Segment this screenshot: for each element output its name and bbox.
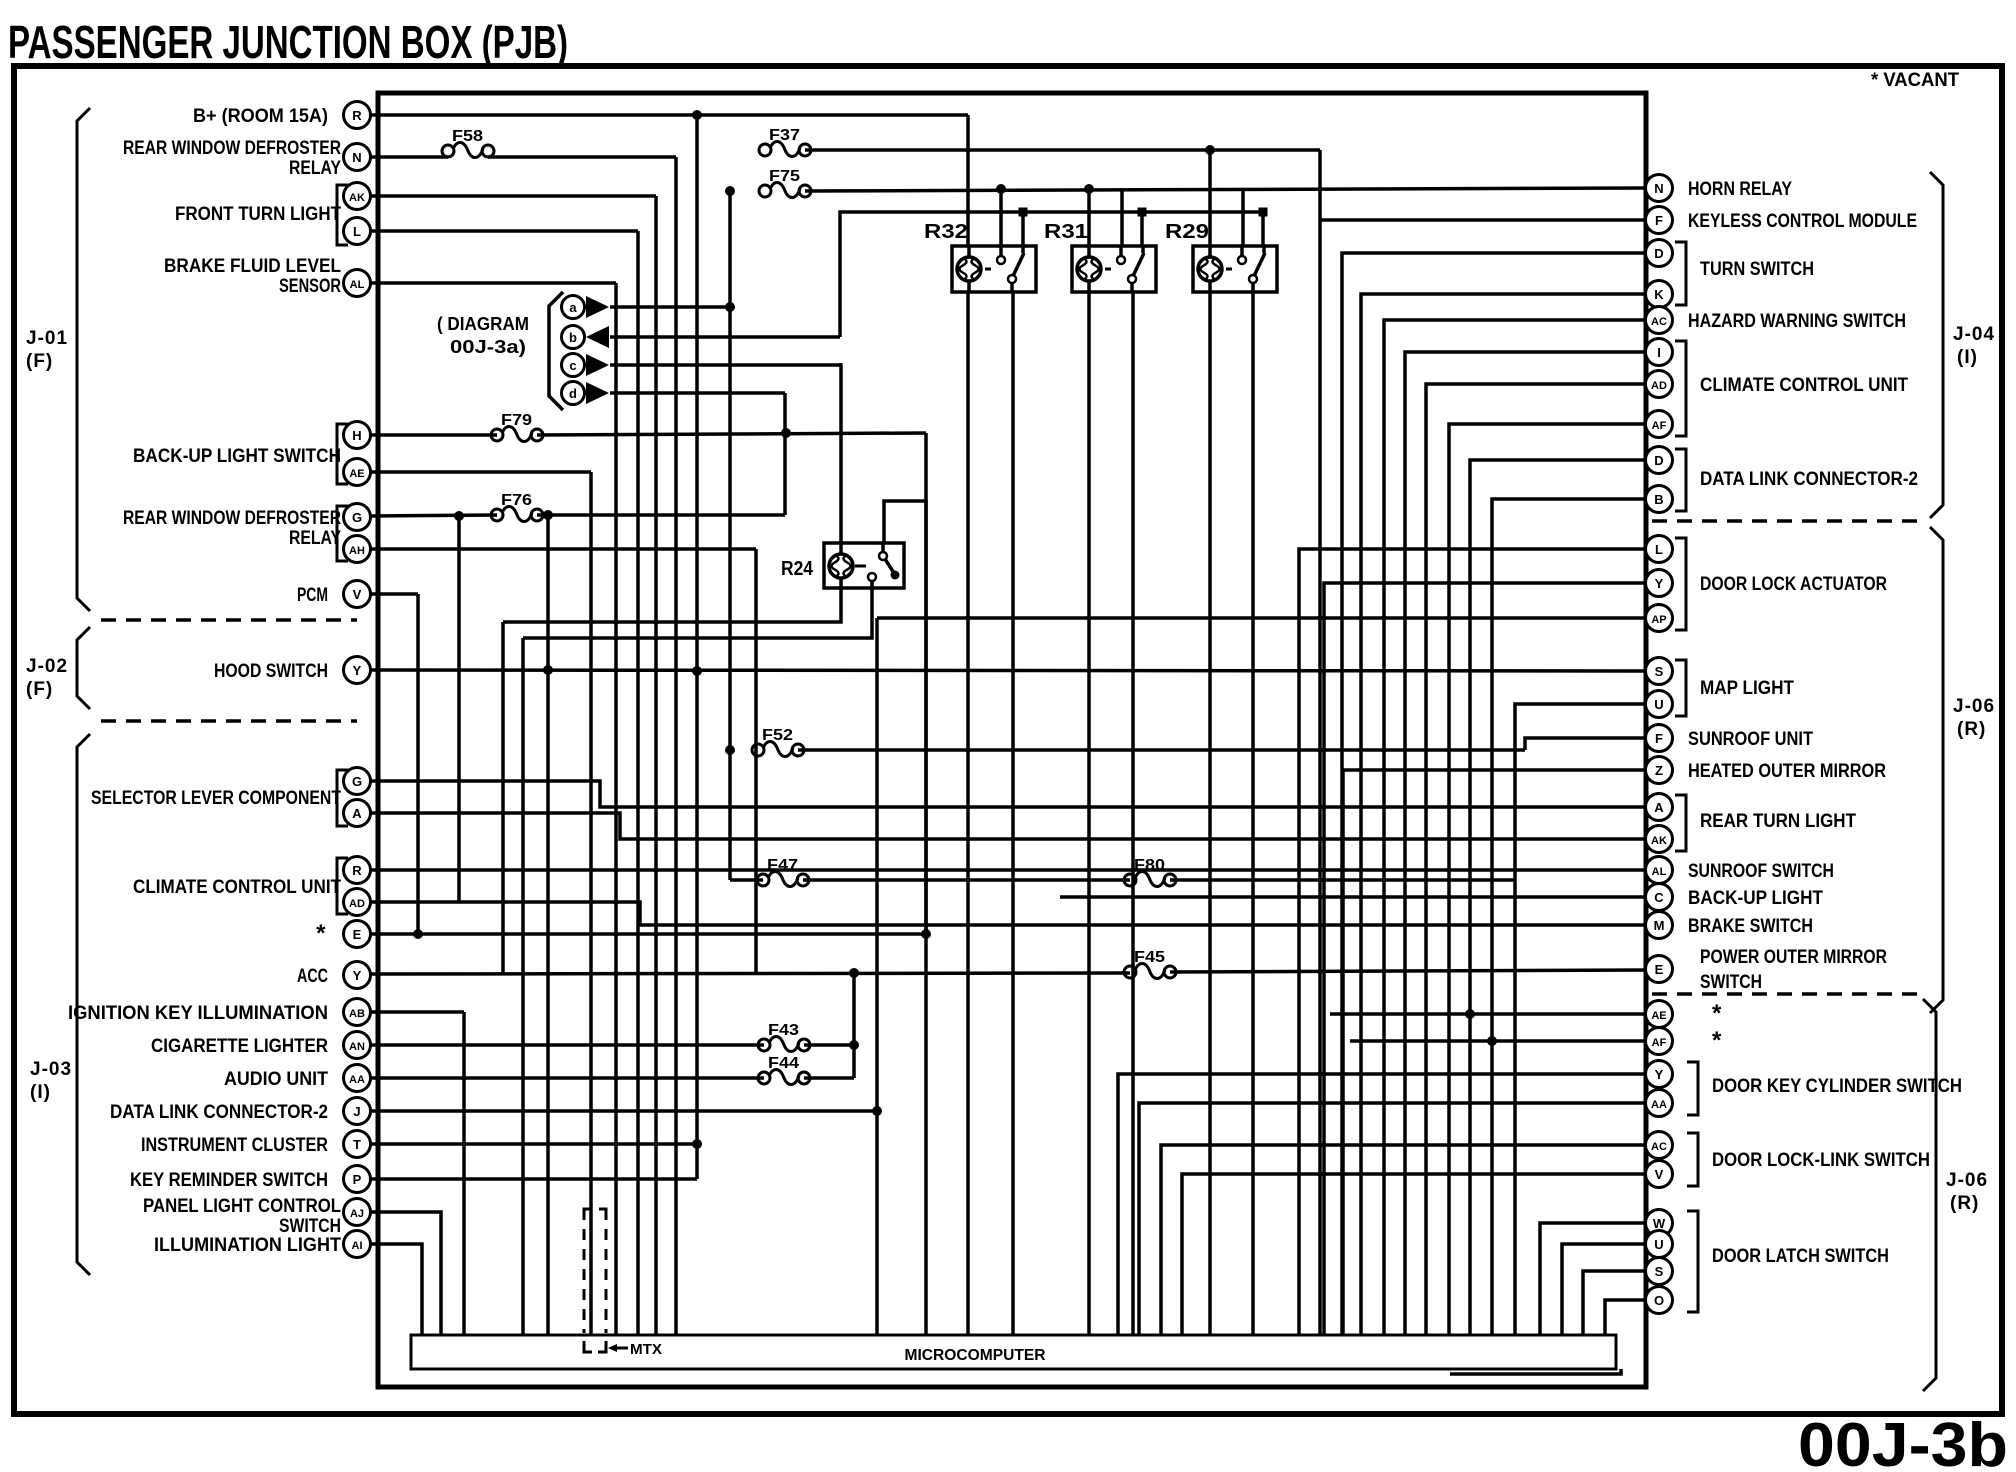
junction F76 / hood switch bus <box>543 510 553 520</box>
svg-text:V: V <box>1655 1167 1664 1182</box>
wire L bus down <box>636 231 640 1335</box>
pin V (left, y=594) <box>344 581 371 608</box>
pin N (left, y=157) <box>344 144 371 171</box>
bracket REAR WINDOW DEFROSTER RELAY <box>337 506 348 561</box>
svg-text:F76: F76 <box>501 492 532 509</box>
junction R31 switch <box>1138 208 1147 217</box>
svg-text:ACC: ACC <box>297 966 328 987</box>
bracket MAP LIGHT <box>1675 660 1686 716</box>
svg-text:PANEL LIGHT CONTROL: PANEL LIGHT CONTROL <box>143 1196 341 1217</box>
svg-text:BRAKE FLUID LEVEL: BRAKE FLUID LEVEL <box>164 256 341 277</box>
microcomputer box lower outline detail <box>1450 1369 1621 1374</box>
node b <box>562 326 585 349</box>
wire AL row <box>370 281 616 285</box>
svg-text:HEATED OUTER MIRROR: HEATED OUTER MIRROR <box>1688 761 1886 782</box>
node c <box>562 354 585 377</box>
junction AF <box>1487 1036 1497 1046</box>
wire selector G to rear turn light A <box>370 781 1646 807</box>
wire bus down to microcomputer <box>674 157 678 1335</box>
MTX dashed connector <box>583 1209 586 1333</box>
svg-text:D: D <box>1654 453 1663 468</box>
fuse F45 <box>1124 949 1176 979</box>
wire d down to F76 bus row <box>783 393 787 515</box>
node a <box>562 296 585 319</box>
svg-text:AC: AC <box>1651 1141 1667 1153</box>
bracket DOOR LOCK-LINK SWITCH <box>1687 1133 1698 1186</box>
svg-text:F79: F79 <box>501 412 532 429</box>
svg-text:R29: R29 <box>1165 221 1209 243</box>
bracket CLIMATE CONTROL UNIT <box>337 858 348 914</box>
junction hood switch row <box>543 665 553 675</box>
svg-text:* VACANT: * VACANT <box>1871 70 1959 91</box>
svg-text:(R): (R) <box>1950 1193 1979 1214</box>
wire audio unit AA to fuse F44 <box>370 1076 764 1080</box>
pin S (right, y=671) <box>1646 658 1673 685</box>
pin U (right, y=704) <box>1646 691 1673 718</box>
pin AN (left, y=1045) <box>344 1032 371 1059</box>
wire AK bus down <box>654 196 658 1335</box>
relay R31 <box>1044 221 1156 292</box>
wire F44 to bus <box>804 1076 854 1080</box>
wire down to R31 switch common <box>1120 189 1124 246</box>
bracket DOOR KEY CYLINDER SWITCH <box>1687 1062 1698 1115</box>
svg-text:N: N <box>352 150 361 165</box>
pin AE (right, y=1014) <box>1646 1001 1673 1028</box>
bracket DATA LINK CONNECTOR-2 (right) <box>1675 449 1686 511</box>
wire into sunroof unit F <box>1525 738 1646 750</box>
svg-text:L: L <box>353 224 361 239</box>
fuse F52 <box>752 727 804 757</box>
svg-text:ILLUMINATION LIGHT: ILLUMINATION LIGHT <box>154 1235 341 1256</box>
svg-text:BRAKE SWITCH: BRAKE SWITCH <box>1688 916 1813 937</box>
svg-text:POWER OUTER MIRROR: POWER OUTER MIRROR <box>1700 947 1887 968</box>
svg-text:U: U <box>1654 1237 1663 1252</box>
pin T (left, y=1144) <box>344 1131 371 1158</box>
svg-text:SWITCH: SWITCH <box>1700 972 1762 993</box>
svg-text:HAZARD WARNING SWITCH: HAZARD WARNING SWITCH <box>1688 311 1906 332</box>
bracket SELECTOR LEVER COMPONENT <box>337 770 348 826</box>
bracket for a-d connector <box>549 292 563 410</box>
fuse F37 <box>759 127 811 157</box>
junction d / F79 / F76 bus <box>781 428 791 438</box>
wire panel light control switch AJ down <box>370 1212 441 1335</box>
svg-text:F: F <box>1655 213 1663 228</box>
svg-text:J-06: J-06 <box>1953 696 1995 717</box>
svg-text:G: G <box>352 510 362 525</box>
wire down to R32 switch common <box>999 189 1003 246</box>
wire R32 coil out down to microcomputer <box>966 293 970 1335</box>
wire G to fuse F76 <box>370 515 497 516</box>
svg-text:CIGARETTE LIGHTER: CIGARETTE LIGHTER <box>151 1036 328 1057</box>
fuse F80 <box>1124 857 1176 887</box>
bracket DOOR LATCH SWITCH <box>1687 1211 1698 1312</box>
dashed separator J-01/J-02 <box>101 618 357 622</box>
svg-text:O: O <box>1654 1293 1664 1308</box>
wire cigarette lighter AN to fuse F43 <box>370 1043 764 1047</box>
svg-text:J-04: J-04 <box>1953 324 1995 345</box>
wire R24 switch common out to bus <box>523 588 872 638</box>
svg-text:Y: Y <box>353 663 362 678</box>
wire ignition key illumination AB row <box>370 1010 464 1014</box>
wire door lock-link V <box>1182 1174 1646 1335</box>
wire door key cylinder Y <box>1118 1074 1646 1335</box>
pin AF (right, y=1041) <box>1646 1028 1673 1055</box>
svg-text:I: I <box>1657 345 1661 360</box>
svg-text:J-03: J-03 <box>30 1059 72 1080</box>
dashed separator J-06 upper/lower <box>1652 992 1925 996</box>
wire selector A to rear turn light AK <box>370 813 1646 839</box>
svg-text:R32: R32 <box>924 221 968 243</box>
svg-text:D: D <box>1654 246 1663 261</box>
svg-text:SWITCH: SWITCH <box>279 1216 341 1237</box>
wire B+ (R) row to R32 coil <box>370 113 968 117</box>
wire J-04 pin row y=352 <box>1405 352 1646 1335</box>
svg-text:b: b <box>569 330 577 345</box>
junction PCM / E <box>413 929 423 939</box>
svg-text:F44: F44 <box>768 1055 799 1072</box>
junction R32 switch common <box>996 184 1006 194</box>
wire door latch U <box>1562 1244 1646 1335</box>
svg-text:AC: AC <box>1651 316 1667 328</box>
pin K (right, y=294) <box>1646 281 1673 308</box>
fuse F44 <box>758 1055 810 1085</box>
svg-text:PCM: PCM <box>297 585 328 606</box>
wire c feed down to R24 coil <box>839 365 843 543</box>
relay R24 <box>781 543 904 588</box>
wire d row <box>610 391 785 395</box>
svg-text:DATA LINK CONNECTOR-2: DATA LINK CONNECTOR-2 <box>110 1102 328 1123</box>
pin AD (right, y=384) <box>1646 371 1673 398</box>
pin V (right, y=1174) <box>1646 1161 1673 1188</box>
svg-text:W: W <box>1653 1216 1666 1231</box>
pin AP (right, y=618) <box>1646 605 1673 632</box>
svg-text:AUDIO UNIT: AUDIO UNIT <box>224 1069 328 1090</box>
wire E row <box>370 932 926 936</box>
svg-text:R: R <box>352 108 362 123</box>
svg-text:AF: AF <box>1652 1037 1667 1049</box>
pin Y (left, y=670) <box>344 657 371 684</box>
wire door lock-link AC <box>1161 1145 1646 1335</box>
bracket FRONT TURN LIGHT <box>337 185 348 245</box>
wire down to R32 coil <box>966 115 970 246</box>
wire F76 right to d bus <box>537 513 785 517</box>
svg-text:AK: AK <box>349 192 365 204</box>
wire ACC row to fuse F45 <box>370 973 1130 974</box>
svg-text:F45: F45 <box>1134 949 1165 966</box>
svg-text:A: A <box>1654 800 1664 815</box>
svg-text:J-02: J-02 <box>26 656 68 677</box>
junction G / AD bus <box>454 511 464 521</box>
wire door latch O <box>1605 1300 1646 1335</box>
svg-text:(F): (F) <box>26 351 53 372</box>
junction F75 feed <box>725 186 735 196</box>
svg-text:BACK-UP LIGHT: BACK-UP LIGHT <box>1688 888 1823 909</box>
svg-text:DOOR LOCK ACTUATOR: DOOR LOCK ACTUATOR <box>1700 574 1887 595</box>
wire hood switch Y row to map light S <box>370 670 1646 671</box>
pin Y (right, y=583) <box>1646 570 1673 597</box>
svg-text:CLIMATE CONTROL UNIT: CLIMATE CONTROL UNIT <box>1700 375 1908 396</box>
wire AL bus down <box>614 283 618 1335</box>
pin C (right, y=897) <box>1646 884 1673 911</box>
svg-text:AF: AF <box>1652 420 1667 432</box>
svg-text:CLIMATE CONTROL UNIT: CLIMATE CONTROL UNIT <box>133 877 341 898</box>
wire AK row <box>370 194 656 198</box>
svg-text:F58: F58 <box>452 128 483 145</box>
pin G (left, y=781) <box>344 768 371 795</box>
pin AJ (left, y=1212) <box>344 1199 371 1226</box>
svg-text:DATA LINK CONNECTOR-2: DATA LINK CONNECTOR-2 <box>1700 469 1918 490</box>
svg-text:J-06: J-06 <box>1946 1170 1988 1191</box>
svg-text:MTX: MTX <box>630 1341 662 1358</box>
junction E / F79 bus <box>921 929 931 939</box>
svg-text:AK: AK <box>1651 835 1667 847</box>
connector J-03 bracket <box>77 734 90 1275</box>
wire F37 to keyless bus <box>805 148 1320 152</box>
wire door latch S <box>1583 1271 1646 1335</box>
svg-text:AE: AE <box>349 468 364 480</box>
wire L row <box>370 229 638 233</box>
fuse F75 <box>759 168 811 198</box>
svg-text:IGNITION KEY ILLUMINATION: IGNITION KEY ILLUMINATION <box>68 1003 328 1024</box>
bracket CLIMATE CONTROL UNIT (right) <box>1675 341 1686 436</box>
pin AH (left, y=549) <box>344 536 371 563</box>
junction R29 coil feed <box>1205 145 1215 155</box>
svg-text:(I): (I) <box>30 1082 51 1103</box>
pin P (left, y=1179) <box>344 1166 371 1193</box>
pin H (left, y=435) <box>344 422 371 449</box>
wire a to F75 bus <box>610 305 730 309</box>
svg-text:T: T <box>353 1137 361 1152</box>
svg-text:DOOR LATCH SWITCH: DOOR LATCH SWITCH <box>1712 1246 1889 1267</box>
svg-text:Y: Y <box>353 968 362 983</box>
connector J-04 bracket <box>1930 172 1943 518</box>
wire R31 switch out down to microcomputer <box>1131 293 1135 1335</box>
wire J-04 pin row y=384 <box>1426 384 1646 1335</box>
pin AK (left, y=196) <box>344 183 371 210</box>
wire AP bus down to microcomputer <box>875 618 879 1335</box>
svg-text:P: P <box>353 1172 362 1187</box>
svg-text:AP: AP <box>1651 614 1666 626</box>
pin A (left, y=813) <box>344 800 371 827</box>
svg-text:AA: AA <box>349 1074 365 1086</box>
pin N (right, y=188) <box>1646 175 1673 202</box>
svg-text:A: A <box>352 806 362 821</box>
svg-text:Y: Y <box>1655 1067 1664 1082</box>
PJB inner box <box>378 93 1646 1387</box>
pin AC (right, y=320) <box>1646 307 1673 334</box>
fuse F47 <box>757 857 809 887</box>
svg-text:SELECTOR LEVER COMPONENT: SELECTOR LEVER COMPONENT <box>91 788 341 809</box>
pin AD (left, y=902) <box>344 889 371 916</box>
wire R24 bus down to microcomputer <box>521 638 525 1335</box>
connector J-02 bracket <box>77 627 90 709</box>
svg-text:MICROCOMPUTER: MICROCOMPUTER <box>905 1347 1046 1364</box>
wire door latch W <box>1540 1223 1646 1335</box>
pin A (right, y=807) <box>1646 794 1673 821</box>
svg-text:F37: F37 <box>769 127 800 144</box>
wire instrument cluster T row <box>370 1142 697 1146</box>
pin B (right, y=499) <box>1646 486 1673 513</box>
pin AK (right, y=839) <box>1646 826 1673 853</box>
wire J-04 pin row y=499 <box>1492 499 1646 1335</box>
svg-text:(R): (R) <box>1957 719 1986 740</box>
pin D (right, y=460) <box>1646 447 1673 474</box>
svg-text:d: d <box>569 386 577 401</box>
pin AI (left, y=1244) <box>344 1231 371 1258</box>
wire bus to F47 <box>730 878 763 882</box>
wire bus F75/F52/F47 <box>728 191 732 880</box>
wire down to R32 switch terminal <box>1021 212 1025 246</box>
relay R29 <box>1165 221 1277 292</box>
wire AE row <box>1330 1012 1646 1016</box>
junction R31 coil feed <box>1084 184 1094 194</box>
svg-text:H: H <box>352 428 361 443</box>
svg-text:R24: R24 <box>781 558 814 580</box>
pin AL (left, y=283) <box>344 270 371 297</box>
fuse F79 <box>491 412 543 442</box>
wire climate AD to brake switch M <box>370 902 1646 925</box>
wire door lock actuator AP row <box>877 616 1646 620</box>
svg-text:AI: AI <box>352 1240 363 1252</box>
wire F45 to power outer mirror switch E <box>1170 970 1646 972</box>
wire heated outer mirror Z <box>1343 770 1646 1335</box>
junction data link connector-2 J <box>872 1106 882 1116</box>
pin Y (left, y=975) <box>344 962 371 989</box>
wire R24 switch feed and down to microcomputer <box>884 501 926 1335</box>
bracket BACK-UP LIGHT SWITCH <box>337 424 348 484</box>
wire J-04 pin row y=424 <box>1449 424 1646 1335</box>
wire c row <box>610 363 841 367</box>
wire PCM bus down to E row <box>416 594 420 934</box>
wire map light U down <box>1515 704 1646 1335</box>
pin W (right, y=1223) <box>1646 1210 1673 1237</box>
wire b row <box>610 335 840 339</box>
junction AE <box>1465 1009 1475 1019</box>
wire bus G to AD <box>457 516 461 902</box>
fuse F43 <box>758 1022 810 1052</box>
svg-text:E: E <box>1655 962 1664 977</box>
pin J (left, y=1111) <box>344 1098 371 1125</box>
svg-text:c: c <box>569 358 576 373</box>
pin L (left, y=231) <box>344 218 371 245</box>
svg-text:AL: AL <box>350 279 365 291</box>
svg-text:a: a <box>569 300 577 315</box>
pin AC (right, y=1145) <box>1646 1132 1673 1159</box>
svg-text:(F): (F) <box>26 679 53 700</box>
junction hood switch row / B+ bus <box>692 666 702 676</box>
junction ACC / F43-F44 bus <box>849 968 859 978</box>
svg-text:(I): (I) <box>1957 347 1978 368</box>
svg-text:R31: R31 <box>1044 221 1088 243</box>
pin Z (right, y=770) <box>1646 757 1673 784</box>
svg-text:F75: F75 <box>769 168 800 185</box>
wire F43 to bus <box>804 1043 854 1047</box>
svg-text:00J-3a): 00J-3a) <box>450 337 526 357</box>
wire PCM V row <box>370 592 418 596</box>
wire AE bus down to microcomputer <box>589 472 593 1335</box>
wire R32 switch out down to microcomputer <box>1011 293 1015 1335</box>
wire N to fuse F58 <box>370 155 448 159</box>
wire F58 to bus <box>488 155 676 159</box>
wire R24 coil out to bus <box>503 588 841 622</box>
pin E (left, y=934) <box>344 921 371 948</box>
svg-text:B+ (ROOM 15A): B+ (ROOM 15A) <box>193 106 328 127</box>
pin AE (left, y=472) <box>344 459 371 486</box>
wire AH row <box>370 547 756 551</box>
wire F47 to F80 <box>803 878 1130 882</box>
svg-text:R: R <box>352 863 362 878</box>
junction F52 feed <box>725 745 735 755</box>
svg-text:AD: AD <box>349 898 365 910</box>
wire bus B+ to key reminder switch <box>695 115 699 1179</box>
wire door key cylinder AA <box>1139 1103 1646 1335</box>
pin Y (right, y=1074) <box>1646 1061 1673 1088</box>
wire door lock actuator L <box>1299 549 1646 1335</box>
svg-text:FRONT TURN LIGHT: FRONT TURN LIGHT <box>175 204 341 225</box>
connector J-06 bracket (lower) <box>1923 999 1936 1391</box>
svg-text:DOOR KEY CYLINDER SWITCH: DOOR KEY CYLINDER SWITCH <box>1712 1076 1962 1097</box>
svg-text:INSTRUMENT CLUSTER: INSTRUMENT CLUSTER <box>141 1135 328 1156</box>
wire bus F45 to F43/F44 <box>852 973 856 1078</box>
svg-text:L: L <box>1655 542 1663 557</box>
svg-text:N: N <box>1654 181 1663 196</box>
wire J-04 pin row y=253 <box>1342 253 1646 1335</box>
svg-text:AD: AD <box>1651 380 1667 392</box>
pin AB (left, y=1012) <box>344 999 371 1026</box>
svg-text:TURN SWITCH: TURN SWITCH <box>1700 259 1814 280</box>
svg-text:00J-3b: 00J-3b <box>1798 1411 2008 1472</box>
relay R32 <box>924 221 1036 292</box>
wire AH bus down <box>754 549 758 973</box>
svg-text:J: J <box>353 1104 360 1119</box>
wire down to R29 switch terminal <box>1261 212 1265 246</box>
pin G (left, y=517) <box>344 504 371 531</box>
wire b up and across to relay switches <box>840 212 1263 337</box>
svg-text:V: V <box>353 587 362 602</box>
svg-text:*: * <box>1712 1000 1724 1027</box>
svg-text:HORN RELAY: HORN RELAY <box>1688 179 1792 200</box>
svg-text:E: E <box>353 927 362 942</box>
svg-text:AH: AH <box>349 545 365 557</box>
wire F79 to R24 switch bus <box>537 433 926 435</box>
wire F52 to sunroof unit <box>798 748 1525 752</box>
pin M (right, y=925) <box>1646 912 1673 939</box>
svg-text:REAR WINDOW DEFROSTER: REAR WINDOW DEFROSTER <box>123 508 341 529</box>
svg-text:REAR WINDOW DEFROSTER: REAR WINDOW DEFROSTER <box>123 138 341 159</box>
bracket REAR TURN LIGHT <box>1675 795 1686 851</box>
svg-text:KEY REMINDER SWITCH: KEY REMINDER SWITCH <box>130 1170 328 1191</box>
svg-text:S: S <box>1655 664 1664 679</box>
svg-text:( DIAGRAM: ( DIAGRAM <box>437 314 529 334</box>
svg-text:AJ: AJ <box>350 1208 364 1220</box>
dashed separator J-02/J-03 <box>101 719 357 723</box>
junction R29 switch terminal <box>1259 208 1268 217</box>
wire R24 coil bus down <box>501 622 505 973</box>
wire down to R29 switch common <box>1241 189 1245 246</box>
wire down to R31 coil <box>1087 189 1091 246</box>
fuse F76 <box>491 492 543 522</box>
pin R (left, y=115) <box>344 102 371 129</box>
svg-text:Y: Y <box>1655 576 1664 591</box>
svg-text:RELAY: RELAY <box>289 528 341 549</box>
svg-text:AN: AN <box>349 1041 365 1053</box>
pin R (left, y=870) <box>344 857 371 884</box>
wire keyless control module F row <box>1320 218 1646 222</box>
svg-text:BACK-UP LIGHT SWITCH: BACK-UP LIGHT SWITCH <box>133 446 341 467</box>
svg-text:MAP LIGHT: MAP LIGHT <box>1700 678 1794 699</box>
pin I (right, y=352) <box>1646 339 1673 366</box>
wire H to fuse F79 <box>370 433 497 437</box>
